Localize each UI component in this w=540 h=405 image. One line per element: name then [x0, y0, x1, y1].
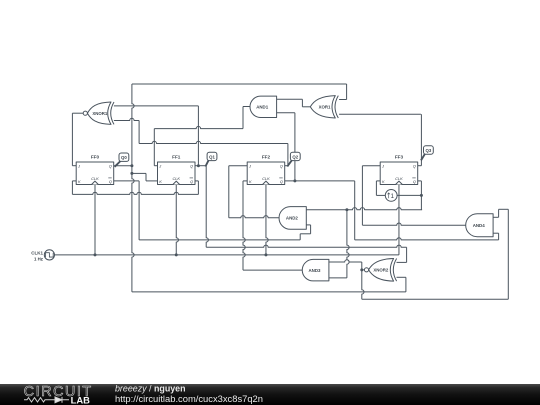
svg-text:Q: Q: [280, 164, 283, 169]
svg-text:Q: Q: [280, 179, 283, 184]
svg-text:J: J: [158, 164, 161, 169]
svg-text:K: K: [382, 179, 385, 184]
svg-text:XNOR2: XNOR2: [373, 267, 389, 272]
and gate AND4: [466, 214, 493, 237]
svg-text:Q: Q: [413, 164, 416, 169]
wire Qbar0 row left segment: [139, 239, 300, 241]
flip-flop FF0: [76, 162, 114, 185]
wire XOR1 top input from Q0 rail: [346, 84, 348, 100]
wire FF0 Qbar: [114, 180, 139, 182]
wire Qbar2 row right segment to AND4: [355, 238, 499, 240]
wire FF2 Qbar row: [285, 180, 355, 182]
wire FF1 K from V1: [132, 172, 146, 174]
wire FF0 clock: [94, 185, 96, 255]
wire AND4 bottom input from Qbar0 row: [493, 232, 499, 234]
svg-text:CLK: CLK: [262, 176, 270, 181]
junction FF1 K branch: [130, 172, 133, 175]
wire XNOR2 input stubs: [397, 261, 407, 263]
wire AND4 top input from right riser: [493, 216, 499, 218]
svg-text:FF2: FF2: [262, 155, 271, 160]
wire FF3 K to logic source: [376, 180, 380, 182]
wire net Q0 top rail to XOR1: [132, 83, 347, 85]
wire CLK row: [54, 254, 399, 256]
wire Q1 row to XNOR2 top input: [206, 245, 406, 247]
wire V2b FF0 Qbar down: [138, 181, 140, 240]
svg-text:CLK: CLK: [395, 176, 403, 181]
tag Q1: [205, 160, 208, 166]
tag Q2: [287, 160, 292, 166]
xnor gate XNOR1: [87, 102, 111, 124]
xnor gate XNOR2: [369, 259, 394, 282]
wire XNOR1 output to FF0 J: [72, 112, 83, 114]
svg-text:Q2: Q2: [292, 154, 298, 159]
svg-text:K: K: [249, 179, 252, 184]
svg-text:FF3: FF3: [395, 155, 404, 160]
wire XNOR1 bottom input: [114, 118, 139, 120]
wire FF3 clock from CLK row: [398, 185, 400, 255]
svg-text:CLK: CLK: [91, 176, 99, 181]
logic one source for FF3: [385, 190, 397, 202]
wire FF3 J from AND4 output: [362, 165, 380, 167]
svg-text:Q: Q: [109, 164, 112, 169]
wire FF1 Qbar: [195, 180, 198, 182]
wire FF3 Qbar down to H_A: [418, 180, 422, 182]
svg-text:Q3: Q3: [426, 148, 432, 153]
and gate AND1: [250, 96, 277, 117]
svg-text:LAB: LAB: [71, 395, 90, 405]
wire Qbar2 vertical to AND3 top input: [354, 181, 356, 240]
junction FF1 clock: [175, 253, 178, 256]
tag Q3: [421, 154, 425, 161]
wire FF1 clock: [176, 185, 178, 255]
junction FF2 clock: [264, 253, 267, 256]
junction AND3 branch on H_A: [345, 208, 348, 211]
wire AND1 bottom input from FF2 Qbar: [277, 112, 295, 114]
svg-text:FF0: FF0: [91, 155, 100, 160]
junction FF2 Qbar branch: [293, 179, 296, 182]
wire AND3 output: [243, 269, 302, 271]
wire H299 XNOR2 out to right side: [362, 298, 509, 300]
wire V4 FF1 Q up to XNOR1: [197, 106, 199, 166]
wire logic source to Qbar3 vertical: [397, 194, 421, 196]
svg-text:FF1: FF1: [172, 155, 181, 160]
wire FF2 K from AND3 output: [243, 180, 247, 182]
wire FF0 Q output: [114, 165, 132, 167]
svg-text:J: J: [248, 164, 251, 169]
wire AND1 output to FF1 J (H3): [243, 106, 250, 108]
flip-flop FF3: [380, 162, 418, 185]
clock source CLK1: [44, 250, 54, 260]
wire AND4 output row: [362, 223, 465, 225]
svg-text:Q: Q: [190, 164, 193, 169]
wire FF0 K: [72, 180, 76, 182]
flip-flop FF1: [158, 162, 196, 185]
wire AND2 output: [229, 216, 281, 218]
wire Q3 vertical: [420, 114, 422, 166]
junction Q0 at V1: [130, 164, 133, 167]
wire XOR1 bottom input from Q3: [339, 113, 421, 115]
wire H5 to FF2 Q: [139, 141, 288, 143]
wire V5 Q1 down: [206, 166, 208, 248]
svg-text:AND1: AND1: [256, 104, 269, 109]
svg-text:K: K: [159, 179, 162, 184]
svg-text:J: J: [381, 164, 384, 169]
wire V2a XNOR1 input to H5: [138, 121, 140, 144]
wire XNOR2 output: [362, 269, 365, 271]
wire FF0 K to FF1 Qbar (H4): [72, 192, 198, 194]
svg-text:AND3: AND3: [309, 268, 322, 273]
svg-text:Q0: Q0: [121, 155, 127, 160]
svg-text:1 Hz: 1 Hz: [34, 256, 44, 261]
svg-text:AND4: AND4: [473, 223, 486, 228]
svg-text:Q: Q: [413, 179, 416, 184]
svg-text:J: J: [77, 164, 80, 169]
svg-text:XNOR1: XNOR1: [92, 111, 108, 116]
wire H292 Q0 to XNOR2 bottom input: [132, 291, 406, 293]
wire AND1 top input from XOR1 output: [277, 98, 303, 100]
junction XNOR2 output corner: [360, 268, 363, 271]
svg-text:CLK1: CLK1: [31, 250, 43, 255]
wire XNOR1 top input from FF1 Q: [114, 105, 198, 107]
svg-text:CLK: CLK: [172, 176, 180, 181]
svg-text:http://circuitlab.com/cucx3xc8: http://circuitlab.com/cucx3xc8s7q2n: [115, 393, 263, 404]
flip-flop FF2: [247, 162, 285, 185]
svg-text:Q1: Q1: [209, 154, 215, 159]
xor gate XOR1: [310, 96, 335, 118]
svg-text:Q: Q: [190, 179, 193, 184]
svg-text:Q: Q: [109, 179, 112, 184]
junction on Qbar3 vertical: [420, 194, 423, 197]
and gate AND2: [279, 207, 306, 230]
and gate AND3: [302, 259, 329, 281]
wire FF1 Q to V4: [195, 165, 206, 167]
svg-text:1: 1: [391, 193, 395, 200]
svg-text:AND2: AND2: [286, 216, 299, 221]
wire AND3 bottom input branch: [347, 210, 349, 278]
logo resistor and diode symbol: [24, 397, 69, 403]
wire AND2 bottom input to Qbar0 row: [306, 224, 310, 226]
wire FF2 J from AND2 output: [229, 165, 247, 167]
svg-text:XOR1: XOR1: [319, 104, 331, 109]
tag Q0: [115, 161, 121, 167]
wire vertical V1 Q0: [132, 84, 134, 292]
wire FF2 clock: [266, 185, 268, 255]
wire H_A Qbar3 to AND2 top input: [306, 208, 422, 210]
svg-text:K: K: [78, 179, 81, 184]
junction FF1 Q: [197, 164, 200, 167]
junction FF0 clock: [94, 253, 97, 256]
